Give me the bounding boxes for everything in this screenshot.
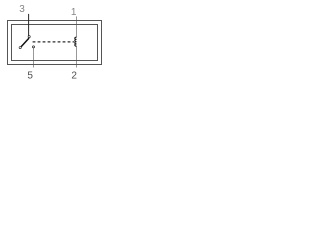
pin 2 (grey pin wire, coil down to bottom) [76,46,78,67]
svg-text:3: 3 [19,4,25,15]
background [0,0,112,87]
svg-text:2: 2 [71,71,77,82]
switch blade [21,38,29,47]
dashed actuation link [33,41,74,43]
contact circle A on pin 3 [28,35,31,38]
pin 5 (grey pin wire, below contact circle to bottom) [33,48,35,68]
relay outer box [8,21,102,65]
pin 1 (grey pin wire, top right down to coil) [76,16,78,37]
contact circle on pin 5 [32,46,35,49]
relay inner box [12,25,98,61]
coil (relay winding) [75,37,77,46]
wire pin 3 (dark net wire) [28,14,30,36]
svg-text:5: 5 [27,71,33,82]
blade end circle B [19,46,22,49]
svg-text:1: 1 [71,7,77,18]
